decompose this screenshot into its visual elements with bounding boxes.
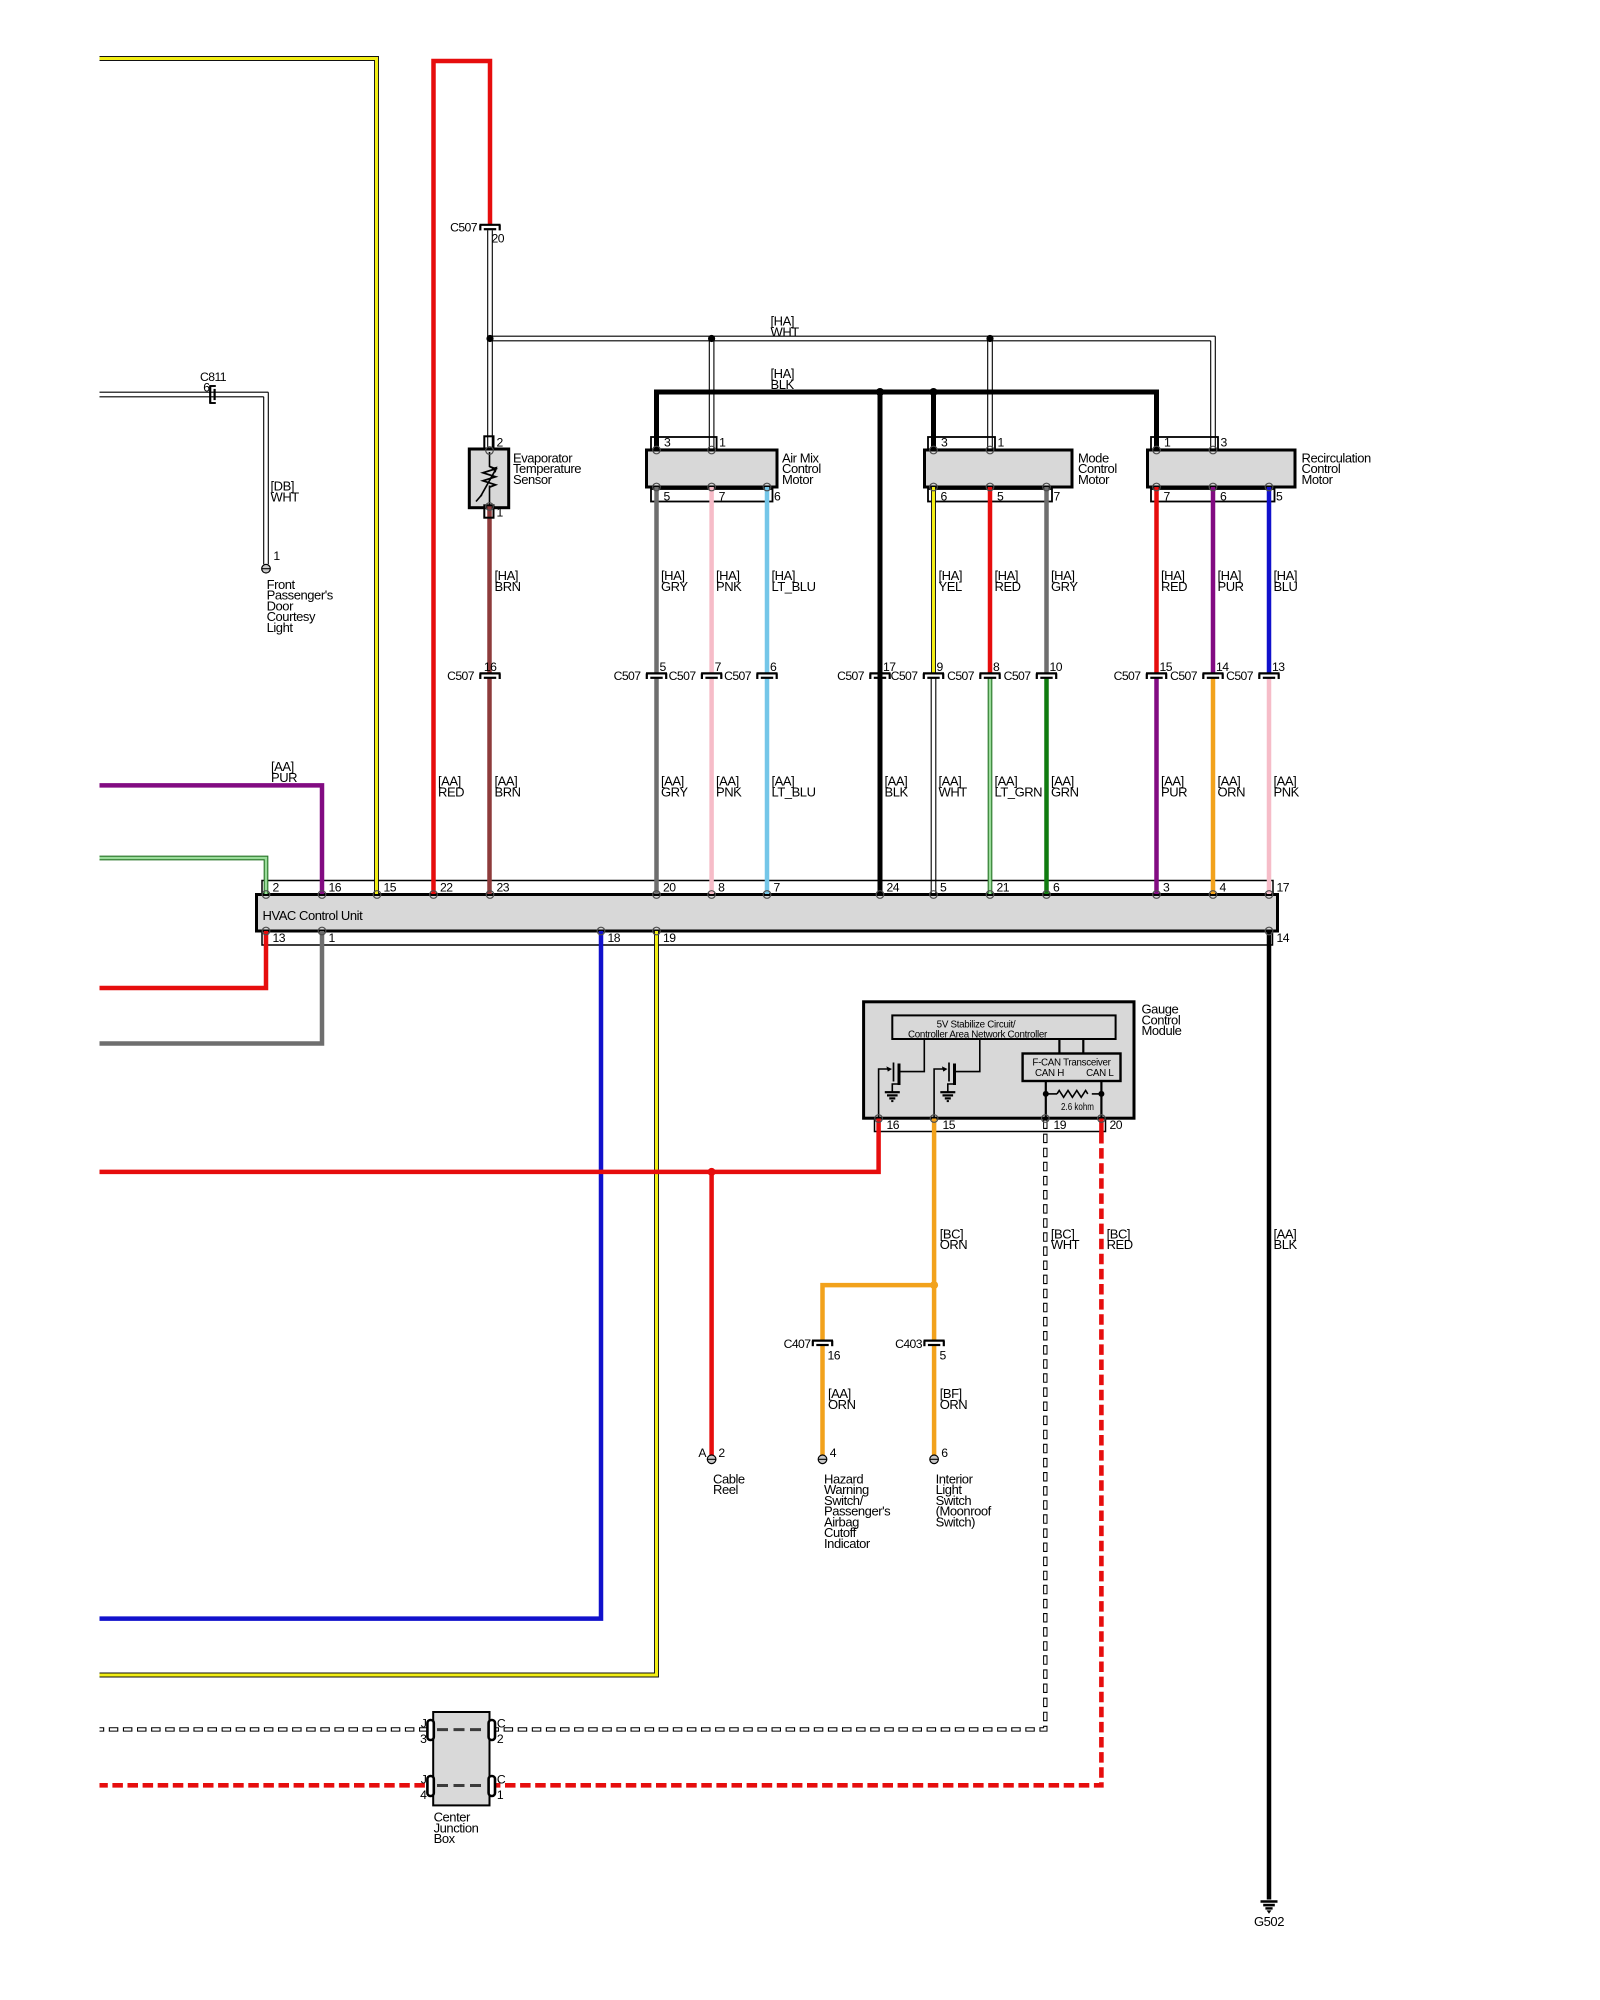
svg-text:C507: C507 xyxy=(447,669,475,683)
wire [AA] BLK from HVAC pin 14 to ground G502 xyxy=(1267,931,1272,1900)
component Evaporator Temperature Sensor box xyxy=(469,449,508,508)
svg-text:21: 21 xyxy=(997,880,1010,894)
svg-text:15: 15 xyxy=(943,1118,956,1132)
svg-text:WHT: WHT xyxy=(771,324,800,339)
svg-text:6: 6 xyxy=(203,380,210,394)
wire [HA] BRN sensor pin 1 to C507-16 xyxy=(487,505,492,673)
wire [AA] ORN to HVAC pin 4 xyxy=(1211,678,1216,894)
svg-text:C407: C407 xyxy=(784,1337,812,1351)
svg-text:RED: RED xyxy=(438,784,464,799)
wire [AA] PNK to HVAC pin 17 xyxy=(1267,678,1272,894)
connector C403 pin 5 xyxy=(924,1339,945,1341)
svg-text:Indicator: Indicator xyxy=(824,1536,871,1551)
svg-text:Motor: Motor xyxy=(1302,472,1334,487)
svg-text:YEL: YEL xyxy=(939,579,962,594)
wire [AA] BRN C507-16 to HVAC pin 23 xyxy=(487,678,492,894)
svg-text:PUR: PUR xyxy=(1161,784,1187,799)
svg-text:5: 5 xyxy=(664,490,671,504)
svg-text:C507: C507 xyxy=(837,669,865,683)
svg-text:19: 19 xyxy=(1054,1118,1067,1132)
svg-text:23: 23 xyxy=(497,880,510,894)
svg-text:10: 10 xyxy=(1050,660,1063,674)
wire [AA] GRY to HVAC pin 20 xyxy=(654,678,659,894)
wire BLU from HVAC pin 18 xyxy=(100,931,602,1619)
wire RED branch to Cable Reel xyxy=(709,1172,714,1455)
wire RED from HVAC pin 13 xyxy=(100,931,267,988)
svg-text:WHT: WHT xyxy=(1051,1237,1080,1252)
svg-text:Box: Box xyxy=(434,1831,456,1846)
svg-text:9: 9 xyxy=(937,660,944,674)
wire [HA] RED Mode pin 5 to C507-8 xyxy=(988,487,993,673)
wire yellow feed top-left to HVAC pin 15 xyxy=(100,59,377,895)
wire [DB] WHT through C811 to courtesy light terminal xyxy=(100,391,269,393)
ground xyxy=(940,1091,955,1093)
wire [BC] WHT dashed from Gauge pin 19 through Center Junction Box xyxy=(100,1120,1046,1730)
svg-text:ORN: ORN xyxy=(828,1397,856,1412)
svg-text:J: J xyxy=(421,1717,427,1731)
connector C507 pin 16 xyxy=(480,672,501,674)
wire [HA] WHT from C507-20 down to evaporator sensor pin 2 xyxy=(487,230,489,449)
CJB pin C2 xyxy=(489,1720,495,1740)
svg-text:24: 24 xyxy=(887,880,900,894)
svg-text:2.6 kohm: 2.6 kohm xyxy=(1061,1102,1094,1113)
wire [HA] LT_BLU Air Mix pin 6 to C507-6 xyxy=(765,487,770,673)
svg-text:6: 6 xyxy=(774,490,781,504)
wire [AA] WHT to HVAC pin 5 xyxy=(930,678,932,894)
svg-text:17: 17 xyxy=(1277,880,1290,894)
wire ORN branch to C407 xyxy=(823,1285,935,1341)
svg-text:2: 2 xyxy=(497,435,504,449)
svg-text:5: 5 xyxy=(1276,490,1283,504)
wire [AA] LT_BLU to HVAC pin 7 xyxy=(765,678,770,894)
svg-text:3: 3 xyxy=(941,435,948,449)
wire [AA] PUR feed to HVAC pin 16 xyxy=(100,785,323,894)
svg-text:RED: RED xyxy=(995,579,1021,594)
pin 2 square of sensor xyxy=(484,436,493,449)
component Mode Control Motor box and connector bars xyxy=(928,437,995,449)
wire [AA] GRN to HVAC pin 6 xyxy=(1044,678,1049,894)
svg-text:5: 5 xyxy=(940,880,947,894)
svg-text:C507: C507 xyxy=(1004,669,1032,683)
svg-text:3: 3 xyxy=(1221,435,1228,449)
svg-text:PUR: PUR xyxy=(1218,579,1244,594)
CJB pin J3 xyxy=(427,1720,433,1740)
wire [AA] ORN C407 to Hazard switch xyxy=(820,1346,825,1455)
svg-text:18: 18 xyxy=(608,931,621,945)
svg-text:C403: C403 xyxy=(895,1337,923,1351)
svg-text:20: 20 xyxy=(663,880,676,894)
svg-text:BLU: BLU xyxy=(1274,579,1298,594)
svg-text:8: 8 xyxy=(718,880,725,894)
connector C507 pin 9 xyxy=(923,672,944,674)
connector C507 pin 13 xyxy=(1259,672,1280,674)
connector C507 pin 7 xyxy=(701,672,722,674)
svg-text:C: C xyxy=(497,1717,506,1731)
connector C507 pin 5 xyxy=(646,672,667,674)
svg-text:ORN: ORN xyxy=(1218,784,1246,799)
wire [HA] WHT horizontal bus xyxy=(490,335,1215,337)
svg-text:3: 3 xyxy=(1163,880,1170,894)
wire RED from Gauge pin 16 xyxy=(100,1119,879,1172)
svg-text:1: 1 xyxy=(329,931,336,945)
svg-text:16: 16 xyxy=(887,1118,900,1132)
svg-text:16: 16 xyxy=(484,660,497,674)
svg-text:6: 6 xyxy=(941,490,948,504)
svg-text:5: 5 xyxy=(997,490,1004,504)
wire [AA] LT_GRN to HVAC pin 21 xyxy=(988,678,993,894)
svg-text:Light: Light xyxy=(267,620,294,635)
svg-text:C507: C507 xyxy=(724,669,752,683)
wire [HA] PNK Air Mix pin 7 to C507-7 xyxy=(709,487,714,673)
svg-text:Module: Module xyxy=(1142,1023,1182,1038)
svg-text:1: 1 xyxy=(497,1788,504,1802)
svg-text:GRY: GRY xyxy=(1051,579,1078,594)
svg-text:20: 20 xyxy=(1110,1118,1123,1132)
connector C507 pin 6 xyxy=(757,672,778,674)
component Air Mix Control Motor box and connector bars xyxy=(651,437,717,449)
wire [AA] PUR to HVAC pin 3 xyxy=(1154,678,1159,894)
svg-text:ORN: ORN xyxy=(940,1397,968,1412)
ground G502 xyxy=(1261,1900,1278,1903)
wire [HA] BLK drop to Mode pin 3 xyxy=(931,392,936,450)
svg-text:BRN: BRN xyxy=(495,784,521,799)
wire [HA] WHT drop to Air Mix pin 1 xyxy=(708,341,710,449)
svg-text:PUR: PUR xyxy=(271,770,297,785)
svg-text:1: 1 xyxy=(497,505,504,519)
svg-text:6: 6 xyxy=(941,1446,948,1460)
wire [HA] YEL Mode pin 6 to C507-9 xyxy=(931,487,936,673)
svg-text:2: 2 xyxy=(497,1732,504,1746)
svg-text:Motor: Motor xyxy=(782,472,814,487)
component Recirculation Control Motor box and connector bars xyxy=(1151,437,1218,449)
svg-text:1: 1 xyxy=(1164,435,1171,449)
svg-text:7: 7 xyxy=(1164,490,1171,504)
thermistor symbol xyxy=(489,452,491,467)
svg-text:13: 13 xyxy=(1272,660,1285,674)
svg-text:3: 3 xyxy=(420,1732,427,1746)
wire CAN H to pin 19 xyxy=(1045,1081,1047,1119)
wire [HA] BLK bus Air Mix pin 3 to Recirculation pin 1 xyxy=(657,392,1157,450)
wire LT_GRN feed to HVAC pin 2 xyxy=(100,858,267,894)
svg-text:Reel: Reel xyxy=(713,1482,738,1497)
svg-text:2: 2 xyxy=(718,1446,725,1460)
svg-text:C507: C507 xyxy=(669,669,697,683)
connector C507 pin 14 xyxy=(1203,672,1224,674)
svg-text:PNK: PNK xyxy=(716,579,742,594)
node white bus junctions xyxy=(486,335,493,342)
wire [HA] PUR Recirculation pin 6 to C507-14 xyxy=(1211,487,1216,673)
svg-text:C507: C507 xyxy=(947,669,975,683)
connector C507 pin 15 xyxy=(1146,672,1167,674)
wire [BC] RED dashed from Gauge pin 20 through Center Junction Box xyxy=(1099,1119,1104,1134)
svg-text:19: 19 xyxy=(663,931,676,945)
terminal 4 Hazard Warning Switch xyxy=(818,1455,827,1464)
svg-text:4: 4 xyxy=(830,1446,837,1460)
component Center Junction Box xyxy=(433,1712,489,1805)
wire ORN from Gauge pin 15 to C403 xyxy=(932,1119,937,1341)
svg-text:GRY: GRY xyxy=(661,784,688,799)
wire [HA] BLK drop to HVAC pin 24 xyxy=(878,392,883,894)
resistor 2.6 kohm xyxy=(1043,1091,1049,1097)
svg-text:7: 7 xyxy=(715,660,722,674)
connector C407 pin 16 xyxy=(812,1339,833,1341)
svg-text:13: 13 xyxy=(273,931,286,945)
svg-text:6: 6 xyxy=(1053,880,1060,894)
wire GRY from HVAC pin 1 xyxy=(100,931,323,1044)
svg-text:BRN: BRN xyxy=(495,579,521,594)
svg-text:GRN: GRN xyxy=(1051,784,1079,799)
svg-text:PNK: PNK xyxy=(716,784,742,799)
svg-text:5: 5 xyxy=(940,1348,947,1362)
svg-text:HVAC Control Unit: HVAC Control Unit xyxy=(263,908,364,923)
wire [HA] BLU Recirculation pin 5 to C507-13 xyxy=(1267,487,1272,673)
svg-text:BLK: BLK xyxy=(771,377,795,392)
svg-text:16: 16 xyxy=(329,880,342,894)
wire [HA] RED Recirculation pin 7 to C507-15 xyxy=(1154,487,1159,673)
svg-text:4: 4 xyxy=(420,1788,427,1802)
svg-text:BLK: BLK xyxy=(1274,1237,1298,1252)
svg-text:16: 16 xyxy=(828,1348,841,1362)
transistor xyxy=(879,1069,891,1119)
transistor xyxy=(934,1069,946,1119)
terminal A 2 Cable Reel xyxy=(707,1455,716,1464)
svg-text:CAN L: CAN L xyxy=(1086,1068,1114,1079)
wire [HA] GRY Air Mix pin 5 to C507-5 xyxy=(654,487,659,673)
Gauge pin circles xyxy=(875,1115,883,1123)
node red junction xyxy=(708,1168,716,1176)
svg-text:Sensor: Sensor xyxy=(513,472,553,487)
svg-text:ORN: ORN xyxy=(940,1237,968,1252)
pin 1 square of sensor xyxy=(484,505,493,517)
svg-text:4: 4 xyxy=(1220,880,1227,894)
svg-text:CAN H: CAN H xyxy=(1035,1068,1064,1079)
CJB pin J4 xyxy=(427,1776,433,1796)
svg-text:C: C xyxy=(497,1773,506,1787)
svg-text:GRY: GRY xyxy=(661,579,688,594)
connector C507 pin 8 xyxy=(980,672,1001,674)
ground xyxy=(885,1091,900,1093)
svg-text:RED: RED xyxy=(1161,579,1187,594)
wire YEL from HVAC pin 19 xyxy=(100,931,657,1675)
svg-text:C507: C507 xyxy=(450,221,478,235)
connector C507 pin 20 xyxy=(480,224,501,226)
svg-text:PNK: PNK xyxy=(1274,784,1300,799)
svg-text:3: 3 xyxy=(664,435,671,449)
svg-text:15: 15 xyxy=(384,880,397,894)
wire red feed to HVAC pin 22 and C507 pin 20 xyxy=(434,61,491,894)
svg-text:LT_GRN: LT_GRN xyxy=(995,784,1043,799)
svg-text:WHT: WHT xyxy=(271,489,300,504)
svg-text:7: 7 xyxy=(774,880,781,894)
terminal 1 Front Passenger Door Courtesy Light xyxy=(262,564,271,573)
svg-text:J: J xyxy=(421,1773,427,1787)
svg-text:6: 6 xyxy=(770,660,777,674)
svg-text:RED: RED xyxy=(1107,1237,1133,1252)
CJB pin C1 xyxy=(489,1776,495,1796)
inner box F-CAN Transceiver xyxy=(1023,1054,1121,1082)
wires 5V box to F-CAN box xyxy=(1058,1040,1060,1054)
svg-text:C507: C507 xyxy=(891,669,919,683)
connector C507 pin 17 xyxy=(870,672,891,674)
connector C811 pin 6 xyxy=(209,385,211,404)
svg-text:5: 5 xyxy=(660,660,667,674)
svg-text:WHT: WHT xyxy=(939,784,968,799)
HVAC pin circles xyxy=(262,891,270,899)
node black bus junctions xyxy=(876,388,884,396)
wire [HA] GRY Mode pin 7 to C507-10 xyxy=(1044,487,1049,673)
svg-text:C507: C507 xyxy=(1170,669,1198,683)
svg-text:BLK: BLK xyxy=(885,784,909,799)
svg-text:2: 2 xyxy=(273,880,280,894)
svg-text:LT_BLU: LT_BLU xyxy=(772,579,816,594)
svg-text:LT_BLU: LT_BLU xyxy=(772,784,816,799)
svg-text:Switch): Switch) xyxy=(936,1514,976,1529)
connector C507 pin 10 xyxy=(1036,672,1057,674)
svg-text:C507: C507 xyxy=(1114,669,1142,683)
svg-text:1: 1 xyxy=(273,549,280,563)
svg-text:1: 1 xyxy=(719,435,726,449)
svg-text:7: 7 xyxy=(1054,490,1061,504)
svg-text:6: 6 xyxy=(1220,490,1227,504)
wire CAN L to pin 20 xyxy=(1100,1081,1102,1119)
wire [HA] WHT drop to Mode pin 1 xyxy=(987,341,989,449)
svg-text:Motor: Motor xyxy=(1078,472,1110,487)
component Gauge Control Module box and connector bar xyxy=(875,1119,1106,1132)
svg-text:7: 7 xyxy=(719,490,726,504)
svg-text:C507: C507 xyxy=(614,669,642,683)
svg-text:1: 1 xyxy=(998,435,1005,449)
svg-text:14: 14 xyxy=(1277,931,1290,945)
inner box 5V Stabilize Circuit / CAN controller xyxy=(892,1015,1115,1039)
component HVAC Control Unit box and connector bars xyxy=(262,881,1273,895)
node orange junction xyxy=(930,1281,938,1289)
svg-text:8: 8 xyxy=(993,660,1000,674)
terminal 6 Interior Light Switch xyxy=(930,1455,939,1464)
svg-text:22: 22 xyxy=(440,880,453,894)
svg-text:20: 20 xyxy=(492,232,505,246)
svg-text:C507: C507 xyxy=(1226,669,1254,683)
wire [AA] PNK to HVAC pin 8 xyxy=(709,678,714,894)
svg-text:Controller Area Network Contro: Controller Area Network Controller xyxy=(908,1030,1048,1041)
svg-text:G502: G502 xyxy=(1254,1914,1284,1929)
wire [BF] ORN C403 to Interior Light switch xyxy=(932,1346,937,1455)
